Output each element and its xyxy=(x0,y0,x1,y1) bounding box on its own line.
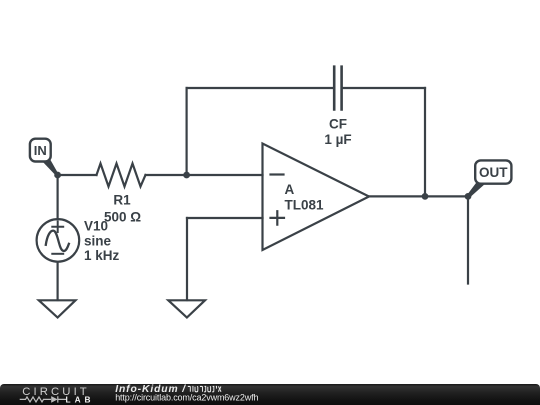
resh xyxy=(188,386,191,391)
wire IN node down to V10 top xyxy=(56,175,58,219)
aleph xyxy=(218,386,221,391)
flag IN box xyxy=(30,139,51,162)
svg-text:http://circuitlab.com/ca2vwm6w: http://circuitlab.com/ca2vwm6wz2wfh xyxy=(115,392,258,402)
logo resistor-diode squiggle xyxy=(20,396,66,402)
svg-text:IN: IN xyxy=(34,143,47,158)
wire feedback top right horizontal xyxy=(342,87,425,89)
svg-text:1 µF: 1 µF xyxy=(324,132,351,147)
capacitor CF plates xyxy=(334,67,341,110)
ground (V10) xyxy=(39,300,76,317)
wire feedback left vertical xyxy=(186,88,188,175)
wire IN node to resistor xyxy=(58,174,97,176)
footer bar xyxy=(0,384,540,405)
footer xyxy=(0,384,540,405)
nun xyxy=(212,386,214,391)
svg-text:500 Ω: 500 Ω xyxy=(104,209,141,224)
V10 sine symbol xyxy=(46,231,69,251)
nun xyxy=(204,386,206,391)
resistor R1 xyxy=(97,164,146,187)
wire feedback right vertical xyxy=(424,88,426,196)
junction node capacitor to output xyxy=(422,193,429,200)
wire feedback top left horizontal xyxy=(187,87,334,89)
op-amp plus mark xyxy=(271,211,285,225)
svg-text:TL081: TL081 xyxy=(285,198,325,213)
V10 minus sign xyxy=(52,253,63,255)
flag OUT tail xyxy=(467,183,486,198)
hebrew word אינטנרטור (vector strokes) xyxy=(188,386,221,391)
junction node on minus input wire xyxy=(183,172,190,179)
svg-text:OUT: OUT xyxy=(479,165,508,180)
wire resistor to op-amp minus input xyxy=(146,174,263,176)
wire op-amp plus input horizontal xyxy=(187,217,263,219)
resh xyxy=(200,386,203,391)
yod xyxy=(215,386,218,388)
ground (op-amp plus input) xyxy=(168,300,205,317)
wire op-amp output xyxy=(369,195,468,197)
flag OUT box xyxy=(475,160,511,183)
svg-text:A: A xyxy=(285,182,295,197)
vav xyxy=(191,386,194,391)
wire plus input down to ground xyxy=(186,218,188,300)
V10 plus sign xyxy=(52,222,63,233)
junction node IN xyxy=(54,172,61,179)
svg-text:V10: V10 xyxy=(84,218,108,233)
wire OUT node down stub xyxy=(467,196,469,283)
tet xyxy=(208,387,211,392)
junction node OUT xyxy=(465,193,472,200)
voltage source V10 xyxy=(37,219,80,262)
svg-text:LAB: LAB xyxy=(66,395,95,405)
tet xyxy=(195,387,198,392)
svg-text:sine: sine xyxy=(84,233,112,248)
wire V10 bottom to ground xyxy=(56,262,58,300)
op-amp U1 triangle xyxy=(263,144,370,251)
svg-text:CF: CF xyxy=(329,116,347,131)
svg-text:1 kHz: 1 kHz xyxy=(84,248,120,263)
op-amp minus mark xyxy=(271,173,284,175)
svg-text:R1: R1 xyxy=(113,193,131,208)
flag IN tail xyxy=(41,160,59,176)
logo diode xyxy=(51,396,57,403)
